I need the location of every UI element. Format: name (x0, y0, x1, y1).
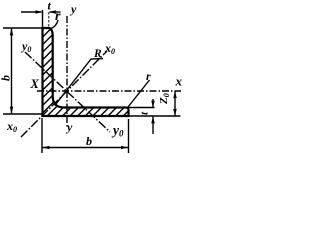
dimension b (bottom): extension lines (41, 118, 43, 153)
svg-text:X: X (30, 77, 40, 91)
dimension t (right leg thickness) (152, 99, 154, 107)
dimension Z0 (right) (174, 91, 176, 116)
axis y (vertical dash-dot) (66, 16, 68, 127)
leader for r (top tip radius) (51, 20, 59, 29)
dimension b (left): dimension line with arrows (11, 28, 13, 114)
t right extension line (48, 12, 50, 27)
dimension t (top): left segment with arrow (21, 11, 61, 13)
angle profile stroke (43, 28, 129, 116)
svg-text:y: y (65, 120, 73, 134)
svg-text:x0: x0 (104, 41, 115, 56)
hatching (0, 0, 239, 130)
svg-text:x: x (175, 74, 183, 89)
axis x0 (diagonal through corner and centroid) (21, 51, 107, 137)
dimension b (bottom): dimension line with arrows (42, 147, 129, 149)
svg-text:r: r (146, 69, 151, 83)
leader for r (right leg tip radius) (128, 80, 150, 107)
top edge extension to the right (for t dim) (129, 107, 155, 109)
angle profile outline (43, 28, 129, 116)
svg-text:t: t (139, 111, 151, 115)
left outer edge extension up (t dimension extension) (42, 10, 44, 28)
axis y0 (diagonal) (25, 52, 110, 132)
svg-text:y0: y0 (20, 39, 31, 54)
bottom edge extension to the right (for t and Z0 dims) (129, 115, 181, 117)
svg-text:t: t (48, 0, 52, 13)
svg-text:Z0: Z0 (158, 93, 171, 105)
svg-text:r: r (55, 9, 61, 24)
svg-text:y0: y0 (111, 123, 124, 139)
axis x (horizontal dash-dot) (37, 90, 181, 92)
svg-text:b: b (86, 134, 92, 148)
svg-text:y: y (69, 2, 77, 16)
svg-text:b: b (0, 75, 13, 81)
svg-text:x0: x0 (6, 119, 17, 134)
dimension b (left): extension lines (3, 27, 43, 29)
